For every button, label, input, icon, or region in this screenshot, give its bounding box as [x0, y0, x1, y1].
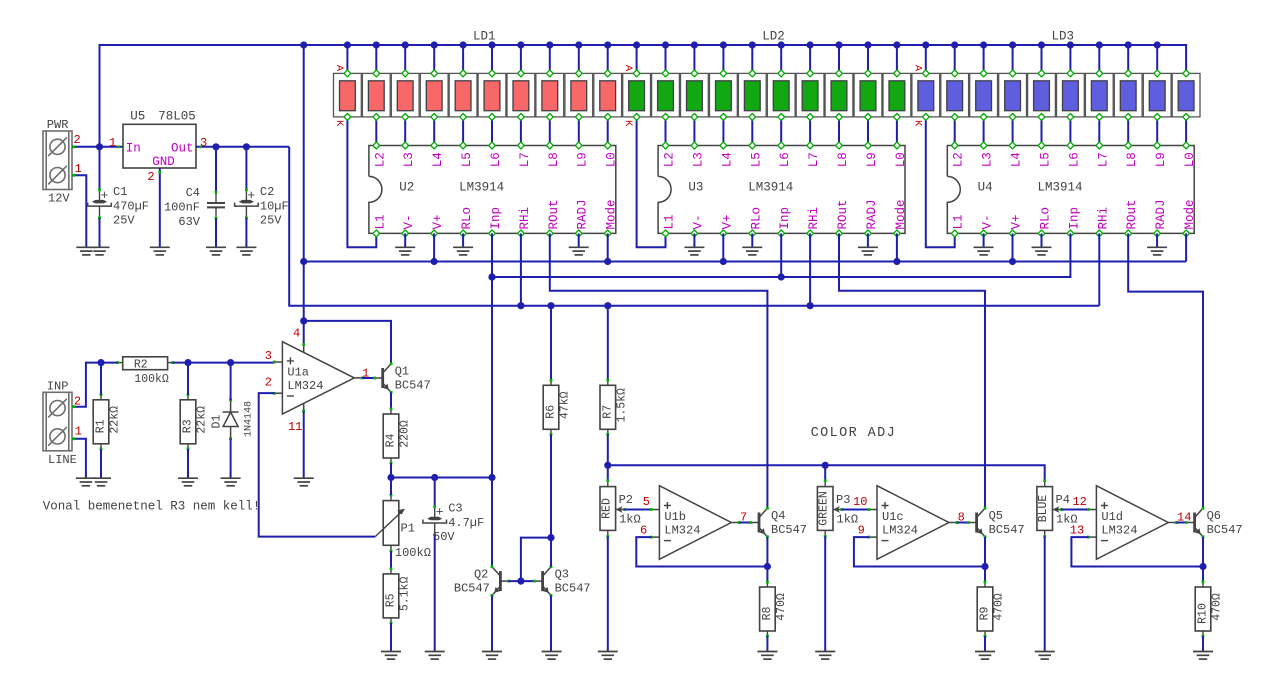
junction U4 V+	[1009, 258, 1016, 265]
wire Q3 emitter to ground	[550, 596, 552, 652]
svg-text:13: 13	[1070, 524, 1084, 538]
svg-text:L8: L8	[547, 152, 561, 167]
wire LED cathode to driver pin	[520, 117, 522, 146]
wire LED cathode to driver pin	[1185, 117, 1187, 146]
svg-text:R5: R5	[385, 593, 398, 607]
wire LED cathode to driver pin	[896, 117, 898, 146]
svg-text:R1: R1	[95, 419, 108, 433]
svg-text:V+: V+	[431, 214, 445, 229]
op-amp U1d LM324	[1087, 486, 1178, 560]
svg-text:L0: L0	[1183, 152, 1197, 167]
wire LED anode	[433, 45, 435, 73]
wire U5 Out 5V	[196, 146, 289, 148]
junction Q3 collector/R6	[547, 534, 554, 541]
svg-text:R8: R8	[761, 607, 774, 621]
svg-text:RADJ: RADJ	[576, 199, 590, 229]
svg-text:5.1kΩ: 5.1kΩ	[399, 577, 412, 612]
svg-text:47kΩ: 47kΩ	[559, 391, 572, 419]
wire U1a output to Q1 base	[362, 377, 374, 379]
ground R1	[91, 478, 111, 486]
svg-text:BLUE: BLUE	[1037, 495, 1050, 523]
wire LED anode	[346, 45, 348, 73]
wire LED anode	[1098, 45, 1100, 73]
junction LED anode on 12V rail	[691, 41, 698, 48]
junction 12V input node	[96, 143, 103, 150]
ground R5	[381, 652, 401, 660]
junction LED anode on 12V rail	[1038, 41, 1045, 48]
svg-text:2: 2	[265, 376, 272, 390]
wire to R1	[100, 363, 102, 395]
ground R3	[178, 478, 198, 486]
junction U2 Mode	[604, 258, 611, 265]
junction C2	[243, 143, 250, 150]
junction LED anode on 12V rail	[344, 41, 351, 48]
junction bases	[517, 578, 524, 585]
wire R5 to ground	[390, 623, 392, 652]
wire LED anode	[954, 45, 956, 73]
wire Q1 collector to 12V	[304, 321, 391, 364]
svg-text:LD1: LD1	[473, 30, 496, 44]
junction U3 V+	[720, 258, 727, 265]
svg-text:V-: V-	[402, 214, 416, 229]
pin tick PWR 1	[72, 174, 75, 177]
svg-text:C1: C1	[113, 185, 127, 199]
svg-text:1: 1	[109, 136, 116, 150]
junction LED anode on 12V rail	[488, 41, 495, 48]
wire signal junction row	[391, 477, 492, 479]
svg-text:Mode: Mode	[894, 199, 908, 229]
wire R10 to ground	[1202, 636, 1204, 652]
wire C2 to ground	[245, 218, 247, 247]
wire U4 pin to ground	[983, 233, 985, 247]
svg-text:Q2: Q2	[474, 568, 488, 582]
svg-text:L1: L1	[952, 214, 966, 229]
junction LED anode on 12V rail	[662, 41, 669, 48]
wire LED anode	[636, 45, 638, 73]
junction pot rail / P2	[604, 462, 611, 469]
wire to D1	[230, 363, 232, 400]
wire U4 pin to ground	[1156, 233, 1158, 247]
junction U3 Mode	[893, 258, 900, 265]
svg-text:L7: L7	[807, 152, 821, 167]
svg-text:9: 9	[858, 524, 865, 538]
wire LED anode	[1012, 45, 1014, 73]
wire to R10	[1202, 567, 1204, 583]
svg-text:ROut: ROut	[836, 199, 850, 229]
svg-text:U1d: U1d	[1101, 510, 1123, 524]
pin tick INP 1	[72, 437, 75, 440]
svg-text:220Ω: 220Ω	[399, 420, 412, 448]
svg-text:+: +	[247, 188, 255, 203]
svg-text:BC547: BC547	[555, 582, 591, 596]
svg-text:LM3914: LM3914	[459, 181, 504, 195]
wire LED cathode to driver pin	[1127, 117, 1129, 146]
wire LED cathode to driver pin	[954, 117, 956, 146]
svg-text:U1b: U1b	[664, 510, 686, 524]
ground R10	[1193, 652, 1213, 660]
svg-text:U5: U5	[130, 110, 145, 124]
svg-text:L8: L8	[1125, 152, 1139, 167]
junction 12V rail / op-amp supply column	[300, 41, 307, 48]
junction LED anode on 12V rail	[951, 41, 958, 48]
junction P3	[822, 462, 829, 469]
wire to C3	[434, 478, 436, 507]
svg-text:RADJ: RADJ	[865, 199, 879, 229]
wire Q5 emitter	[984, 537, 986, 567]
wire 5V rail from regulator	[289, 147, 1099, 306]
transistor Q5	[967, 507, 1025, 538]
wire LED anode	[693, 45, 695, 73]
wire LED anode	[578, 45, 580, 73]
resistor R2	[116, 357, 174, 386]
wire LED cathode to driver pin	[1069, 117, 1071, 146]
junction signal column	[488, 474, 495, 481]
wire INP pin2 to divider	[72, 363, 101, 407]
svg-text:RLo: RLo	[460, 207, 474, 230]
svg-text:2: 2	[147, 170, 154, 184]
ground U4	[1147, 247, 1167, 255]
junction C3	[431, 474, 438, 481]
svg-text:22kΩ: 22kΩ	[109, 406, 122, 434]
capacitor C4	[164, 186, 225, 229]
svg-text:L3: L3	[402, 152, 416, 167]
svg-text:470Ω: 470Ω	[775, 593, 788, 621]
ground PWR pin1	[76, 247, 96, 255]
wire R4 to junction row	[390, 463, 392, 478]
wire LED anode	[838, 45, 840, 73]
svg-text:L0: L0	[605, 152, 619, 167]
svg-text:25V: 25V	[260, 213, 282, 227]
connector INP screw terminal	[43, 392, 72, 451]
ground D1	[221, 478, 241, 486]
wire U3 pin to ground	[867, 233, 869, 247]
svg-text:BC547: BC547	[989, 523, 1025, 537]
junction U3 RHi	[807, 302, 814, 309]
junction LED anode on 12V rail	[517, 41, 524, 48]
wire LED anode	[549, 45, 551, 73]
svg-text:BC547: BC547	[454, 582, 490, 596]
transistor Q6	[1185, 507, 1243, 538]
svg-text:100kΩ: 100kΩ	[134, 373, 169, 386]
svg-text:L9: L9	[865, 152, 879, 167]
junction LED anode on 12V rail	[633, 41, 640, 48]
resistor R8	[760, 581, 788, 638]
svg-text:LM324: LM324	[882, 524, 918, 538]
svg-text:ROut: ROut	[1125, 199, 1139, 229]
wire P4 wiper to op-amp +	[1061, 509, 1088, 511]
svg-text:COLOR ADJ: COLOR ADJ	[811, 426, 897, 441]
potentiometer P2 (RED)	[600, 479, 641, 538]
wire Q1 emitter to R4	[390, 392, 392, 409]
op-amp U1b LM324	[650, 486, 741, 560]
ground U4	[1032, 247, 1052, 255]
wire LED anode	[665, 45, 667, 73]
ground Q2	[482, 652, 502, 660]
wire P2 bottom to ground	[607, 536, 609, 651]
wire LED cathode to driver pin	[983, 117, 985, 146]
wire R7 to pot rail	[607, 434, 609, 465]
pin tick U5 Out	[199, 145, 202, 148]
wire pot to 5V rail	[824, 465, 826, 480]
svg-text:4: 4	[293, 327, 300, 341]
transistor Q3	[533, 565, 591, 596]
pin tick INP 2	[72, 405, 75, 408]
svg-text:LM3914: LM3914	[748, 181, 793, 195]
ground C1	[90, 247, 110, 255]
wire LED anode	[809, 45, 811, 73]
junction LED anode on 12V rail	[431, 41, 438, 48]
svg-text:Mode: Mode	[1183, 199, 1197, 229]
wire to C4	[215, 147, 217, 192]
svg-text:50V: 50V	[433, 530, 455, 544]
junction U2 V+	[431, 258, 438, 265]
wire 12V top rail	[100, 45, 1187, 147]
wire Q4 emitter	[766, 537, 768, 567]
wire signal up to U2 Inp	[491, 277, 493, 478]
diode D1 1N4148	[223, 400, 239, 439]
wire LED cathode to driver pin	[838, 117, 840, 146]
junction D1	[227, 359, 234, 366]
pin tick U5 In	[117, 145, 120, 148]
junction Q4 emitter / R8	[764, 563, 771, 570]
svg-text:GND: GND	[152, 155, 175, 169]
ground C3	[425, 652, 445, 660]
wire U2 pin to ground	[462, 233, 464, 247]
svg-text:RHi: RHi	[1096, 207, 1110, 230]
wire LED anode	[1156, 45, 1158, 73]
resistor R5	[383, 568, 411, 625]
svg-text:L6: L6	[778, 152, 792, 167]
svg-text:C4: C4	[186, 186, 200, 200]
svg-text:R2: R2	[134, 358, 148, 371]
op-amp U1a LM324	[273, 342, 364, 414]
svg-text:LM324: LM324	[287, 379, 323, 393]
wire U3 ROut to Q5 collector	[839, 233, 985, 508]
junction Q6 emitter / R10	[1199, 563, 1206, 570]
wire U1b feedback	[636, 537, 767, 566]
svg-text:L1: L1	[663, 214, 677, 229]
svg-text:R9: R9	[979, 607, 992, 621]
junction pin4 / Q1 collector branch	[300, 317, 307, 324]
wire to Q2 collector	[491, 478, 493, 567]
wire U1d output to Q6 base	[1176, 522, 1186, 524]
capacitor C3	[423, 502, 484, 545]
wire LED cathode to driver pin	[722, 117, 724, 146]
ground P4	[1035, 652, 1055, 660]
svg-text:5: 5	[643, 495, 650, 509]
svg-text:L5: L5	[749, 152, 763, 167]
svg-text:Q4: Q4	[771, 509, 785, 523]
svg-text:U2: U2	[399, 181, 414, 195]
ground U4	[974, 247, 994, 255]
svg-text:R7: R7	[601, 405, 614, 419]
svg-text:RHi: RHi	[518, 207, 532, 230]
ground C2	[236, 247, 256, 255]
wire P1 to R5	[390, 551, 392, 569]
ground U3	[742, 247, 762, 255]
svg-text:RHi: RHi	[807, 207, 821, 230]
svg-text:3: 3	[265, 349, 272, 363]
junction R7 top on 5V rail	[604, 302, 611, 309]
wire U2 V+ to 12V rail	[433, 233, 435, 261]
svg-text:L5: L5	[460, 152, 474, 167]
svg-text:L9: L9	[1154, 152, 1168, 167]
junction LED anode on 12V rail	[778, 41, 785, 48]
svg-text:L7: L7	[1096, 152, 1110, 167]
wire LED anode	[751, 45, 753, 73]
wire LED cathode to driver pin	[607, 117, 609, 146]
wire signal rail to U3 Inp	[492, 276, 781, 278]
wire to Q3 collector	[550, 538, 552, 567]
svg-text:22kΩ: 22kΩ	[196, 406, 209, 434]
wire C4 to ground	[215, 219, 217, 248]
wire INP pin1 to ground	[72, 439, 86, 478]
junction LED anode on 12V rail	[1067, 41, 1074, 48]
svg-text:U3: U3	[688, 181, 703, 195]
wire to C1	[99, 147, 101, 190]
wire LED anode	[491, 45, 493, 73]
svg-text:GREEN: GREEN	[818, 491, 831, 526]
wire LED anode	[1069, 45, 1071, 73]
wire U5 GND pin	[159, 168, 161, 247]
wire Q2/Q3 bases	[509, 580, 535, 582]
svg-text:Q6: Q6	[1207, 509, 1221, 523]
wire LED cathode to driver pin	[665, 117, 667, 146]
junction LED anode on 12V rail	[460, 41, 467, 48]
wire P3 bottom to ground	[824, 536, 826, 651]
junction LED anode on 12V rail	[835, 41, 842, 48]
junction LED anode on 12V rail	[373, 41, 380, 48]
wire U3 RHi	[809, 233, 811, 305]
junction R6 top on 5V rail	[547, 302, 554, 309]
svg-text:Inp: Inp	[778, 207, 792, 230]
junction Q5 emitter / R9	[981, 563, 988, 570]
wire bases to Q3 collector	[521, 538, 551, 582]
ground U2	[453, 247, 473, 255]
wire U3 Mode to 12V rail	[896, 233, 898, 261]
svg-text:RLo: RLo	[749, 207, 763, 230]
svg-text:A: A	[622, 65, 634, 72]
svg-text:LINE: LINE	[48, 453, 77, 467]
LM3914 driver U4	[947, 142, 1197, 237]
ground R9	[975, 652, 995, 660]
wire U3 V+ to 12V rail	[722, 233, 724, 261]
svg-text:L2: L2	[373, 152, 387, 167]
svg-text:10µF: 10µF	[260, 199, 289, 213]
svg-text:A: A	[911, 65, 923, 72]
wire C1 to ground	[99, 218, 101, 247]
ground U5	[150, 247, 170, 255]
wire LED anode	[896, 45, 898, 73]
svg-text:RED: RED	[600, 498, 613, 519]
svg-text:+: +	[101, 188, 109, 203]
svg-text:D1: D1	[211, 415, 224, 429]
svg-text:4.7µF: 4.7µF	[448, 516, 484, 530]
resistor R1	[93, 393, 121, 450]
svg-text:L2: L2	[663, 152, 677, 167]
ground INP pin1	[76, 478, 96, 486]
wire 5V to R6	[550, 306, 552, 381]
regulator U5 78L05	[123, 110, 196, 169]
junction C4	[212, 143, 219, 150]
wire LED anode	[462, 45, 464, 73]
svg-text:L2: L2	[952, 152, 966, 167]
wire LED cathode to driver pin	[549, 117, 551, 146]
wire U1a pin11 to ground	[303, 411, 305, 478]
resistor R3	[180, 393, 208, 450]
wire to U5 In	[100, 146, 124, 148]
wire to R9	[984, 567, 986, 583]
svg-text:LD3: LD3	[1051, 30, 1074, 44]
svg-text:Vonal bemenetnel R3 nem kell!: Vonal bemenetnel R3 nem kell!	[43, 500, 261, 514]
wire U4 ROut to Q6 collector	[1128, 233, 1203, 508]
junction LED anode on 12V rail	[1125, 41, 1132, 48]
wire U2 ROut to Q4 collector	[550, 233, 768, 508]
svg-text:Inp: Inp	[1067, 207, 1081, 230]
LED bar LD1 (red)	[334, 70, 622, 120]
wire R1 to ground	[100, 449, 102, 478]
svg-text:V-: V-	[981, 214, 995, 229]
svg-text:R3: R3	[182, 419, 195, 433]
lead U1a pin4	[303, 345, 305, 353]
svg-text:R6: R6	[545, 405, 558, 419]
ground U2	[395, 247, 415, 255]
wire LED cathode to driver pin	[809, 117, 811, 146]
svg-text:K: K	[622, 120, 634, 127]
svg-text:6: 6	[640, 524, 647, 538]
wire LED anode	[1127, 45, 1129, 73]
wire LED anode	[375, 45, 377, 73]
wire U3 Inp	[780, 233, 782, 277]
wire U4 RHi	[1098, 233, 1100, 305]
svg-text:78L05: 78L05	[158, 110, 196, 124]
ground R8	[757, 652, 777, 660]
resistor R9	[977, 581, 1005, 638]
svg-text:P3: P3	[836, 493, 850, 507]
wire 12V to U1a V+ pin4	[303, 45, 305, 345]
wire U2 RHi to 5V rail	[520, 233, 522, 305]
svg-text:LM324: LM324	[664, 524, 700, 538]
svg-text:LM3914: LM3914	[1038, 181, 1083, 195]
wire LED cathode to driver pin	[375, 117, 377, 146]
svg-text:11: 11	[288, 420, 302, 434]
wire LED anode	[404, 45, 406, 73]
svg-text:12: 12	[1072, 495, 1086, 509]
wire first LED cathode to L1	[347, 117, 376, 247]
svg-text:ROut: ROut	[547, 199, 561, 229]
junction LED anode on 12V rail	[980, 41, 987, 48]
svg-text:INP: INP	[47, 379, 69, 393]
svg-text:1N4148: 1N4148	[244, 401, 255, 437]
svg-text:1: 1	[75, 162, 82, 176]
junction signal rail B	[488, 273, 495, 280]
svg-text:L4: L4	[431, 152, 445, 167]
ground U3	[858, 247, 878, 255]
wire LED anode	[925, 45, 927, 73]
wire LED cathode to driver pin	[751, 117, 753, 146]
svg-text:LD2: LD2	[762, 30, 785, 44]
svg-text:Q5: Q5	[989, 509, 1003, 523]
ground U1a	[294, 478, 314, 486]
connector PWR screw terminal	[43, 131, 72, 190]
svg-text:V+: V+	[720, 214, 734, 229]
wire to R3	[187, 363, 189, 395]
wire U1b output to Q4 base	[739, 522, 751, 524]
wire LED anode	[1041, 45, 1043, 73]
wire to C2	[245, 147, 247, 190]
wire PWR pin1 to ground	[72, 175, 86, 247]
wire U1c output to Q5 base	[957, 522, 969, 524]
